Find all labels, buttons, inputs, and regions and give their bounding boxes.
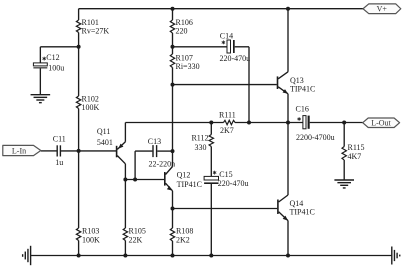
- svg-text:220-470u: 220-470u: [218, 179, 249, 188]
- svg-text:R108: R108: [176, 227, 193, 236]
- svg-text:TIP41C: TIP41C: [177, 180, 202, 189]
- svg-text:R106: R106: [176, 18, 193, 27]
- svg-text:2K7: 2K7: [220, 126, 234, 135]
- svg-text:Q14: Q14: [290, 199, 304, 208]
- svg-text:Q12: Q12: [177, 171, 191, 180]
- svg-text:R103: R103: [82, 227, 99, 236]
- svg-text:R101: R101: [82, 18, 99, 27]
- svg-text:R107: R107: [176, 54, 193, 63]
- svg-text:C13: C13: [148, 137, 161, 146]
- svg-text:100u: 100u: [48, 64, 64, 73]
- svg-text:1u: 1u: [55, 158, 63, 167]
- svg-text:100K: 100K: [82, 103, 100, 112]
- svg-text:C15: C15: [219, 170, 232, 179]
- svg-text:V+: V+: [377, 5, 388, 14]
- svg-text:L-Out: L-Out: [371, 119, 391, 128]
- svg-text:TIP41C: TIP41C: [290, 208, 315, 217]
- svg-text:100K: 100K: [82, 235, 100, 244]
- svg-text:L-In: L-In: [12, 147, 26, 156]
- svg-text:330: 330: [195, 143, 207, 152]
- svg-text:2200-4700u: 2200-4700u: [296, 133, 335, 142]
- svg-text:Q13: Q13: [290, 76, 304, 85]
- svg-text:4K7: 4K7: [348, 152, 362, 161]
- svg-text:Rv=27K: Rv=27K: [82, 27, 110, 36]
- svg-text:2K2: 2K2: [176, 235, 190, 244]
- svg-text:R112: R112: [191, 134, 208, 143]
- svg-text:C11: C11: [53, 135, 66, 144]
- svg-text:C12: C12: [46, 53, 59, 62]
- svg-text:R102: R102: [82, 95, 99, 104]
- svg-text:5401: 5401: [97, 138, 113, 147]
- svg-text:220: 220: [176, 27, 188, 36]
- svg-text:220-470u: 220-470u: [220, 54, 251, 63]
- svg-text:R105: R105: [129, 227, 146, 236]
- svg-text:22-220n: 22-220n: [149, 159, 176, 168]
- svg-text:22K: 22K: [129, 235, 143, 244]
- svg-text:R111: R111: [219, 110, 236, 119]
- svg-text:R115: R115: [348, 143, 365, 152]
- svg-text:TIP41C: TIP41C: [290, 85, 315, 94]
- svg-text:Ri=330: Ri=330: [176, 62, 200, 71]
- svg-text:C16: C16: [296, 105, 309, 114]
- svg-text:Q11: Q11: [97, 127, 110, 136]
- svg-text:C14: C14: [220, 31, 233, 40]
